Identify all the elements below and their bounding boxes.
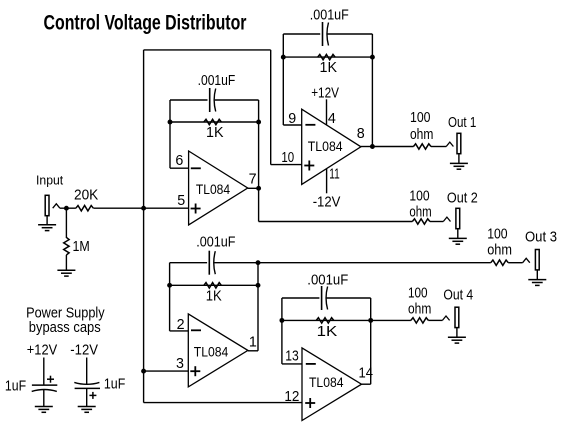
svg-text:6: 6 bbox=[175, 153, 183, 169]
svg-text:1K: 1K bbox=[206, 125, 224, 141]
svg-text:.001uF: .001uF bbox=[307, 273, 348, 289]
svg-text:+12V: +12V bbox=[27, 343, 58, 359]
svg-text:Out 3: Out 3 bbox=[525, 230, 557, 246]
svg-text:1M: 1M bbox=[73, 239, 90, 255]
svg-text:Out 1: Out 1 bbox=[448, 115, 476, 131]
svg-text:7: 7 bbox=[249, 172, 257, 188]
svg-text:100: 100 bbox=[408, 286, 428, 302]
svg-text:.001uF: .001uF bbox=[198, 73, 236, 89]
svg-text:1uF: 1uF bbox=[104, 376, 126, 392]
svg-text:TL084: TL084 bbox=[196, 181, 230, 197]
svg-text:Power Supply: Power Supply bbox=[26, 305, 105, 321]
svg-text:-12V: -12V bbox=[313, 195, 341, 211]
svg-text:3: 3 bbox=[176, 356, 184, 372]
svg-text:1K: 1K bbox=[206, 289, 222, 305]
svg-text:100: 100 bbox=[409, 188, 429, 204]
svg-text:8: 8 bbox=[357, 126, 365, 142]
svg-text:100: 100 bbox=[410, 110, 431, 126]
svg-text:Input: Input bbox=[36, 172, 64, 187]
svg-text:TL084: TL084 bbox=[194, 343, 229, 359]
svg-text:10: 10 bbox=[281, 150, 294, 166]
svg-text:TL084: TL084 bbox=[308, 138, 343, 154]
svg-text:20K: 20K bbox=[74, 188, 99, 204]
svg-text:.001uF: .001uF bbox=[310, 7, 349, 23]
svg-text:.001uF: .001uF bbox=[196, 235, 235, 251]
svg-text:1uF: 1uF bbox=[5, 379, 26, 395]
svg-text:4: 4 bbox=[328, 111, 336, 127]
svg-text:ohm: ohm bbox=[410, 127, 433, 143]
svg-text:Out 4: Out 4 bbox=[443, 287, 473, 303]
svg-text:+12V: +12V bbox=[311, 85, 339, 101]
svg-text:13: 13 bbox=[285, 349, 299, 365]
svg-text:bypass caps: bypass caps bbox=[29, 320, 101, 336]
svg-text:Out 2: Out 2 bbox=[447, 190, 478, 206]
svg-text:1K: 1K bbox=[317, 324, 338, 340]
svg-text:5: 5 bbox=[177, 193, 185, 209]
svg-text:-12V: -12V bbox=[70, 343, 98, 359]
svg-text:11: 11 bbox=[329, 167, 340, 183]
svg-text:Control Voltage Distributor: Control Voltage Distributor bbox=[44, 11, 247, 34]
svg-text:TL084: TL084 bbox=[309, 374, 344, 390]
svg-text:1: 1 bbox=[249, 334, 257, 350]
svg-text:1K: 1K bbox=[320, 60, 338, 76]
svg-text:ohm: ohm bbox=[408, 301, 431, 317]
svg-text:100: 100 bbox=[487, 227, 507, 243]
svg-text:12: 12 bbox=[284, 389, 299, 405]
svg-text:ohm: ohm bbox=[487, 243, 512, 259]
svg-text:ohm: ohm bbox=[409, 204, 431, 220]
